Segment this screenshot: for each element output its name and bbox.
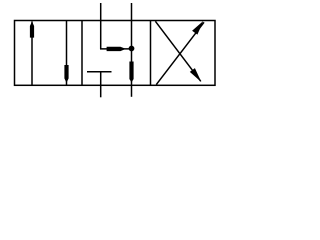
position box divider 1 bbox=[81, 21, 83, 86]
port line P (bottom left stub) bbox=[100, 72, 102, 98]
blocked port P symbol (T-bar cap) bbox=[87, 71, 112, 73]
valve body outline bbox=[15, 21, 216, 86]
flow path P to A (left box, up arrow line) bbox=[30, 22, 34, 86]
crossed flow path A to T (right box, arrow down-right) bbox=[155, 21, 201, 82]
port line B / T flow line (top right through centre box to bottom) bbox=[129, 3, 133, 97]
flow path B to T (left box, down arrow line) bbox=[64, 21, 68, 85]
port line A (top left, into centre box) bbox=[100, 3, 102, 49]
position box divider 2 bbox=[150, 21, 152, 86]
crossed flow path P to B (right box, arrow up-right) bbox=[156, 21, 204, 85]
junction dot at A/B/T node bbox=[129, 46, 135, 52]
flow path A to junction (elbow with right arrow) bbox=[100, 47, 132, 51]
